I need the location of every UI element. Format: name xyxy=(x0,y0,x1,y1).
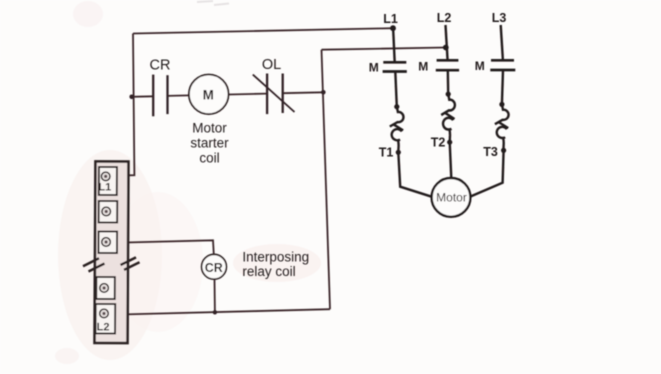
wire: second top rail to L2 phase xyxy=(322,48,446,50)
wire: phase3 heater to motor xyxy=(471,150,504,196)
svg-text:Motor: Motor xyxy=(192,121,227,136)
heater T3 xyxy=(495,104,509,150)
node right rung junction xyxy=(321,90,326,95)
node below heater T2 xyxy=(447,140,452,145)
svg-text:L2: L2 xyxy=(97,321,110,333)
terminal 5 (L2) xyxy=(96,304,116,334)
node L1 tap xyxy=(390,25,396,31)
contact OL (normally closed) xyxy=(267,74,283,115)
wire: rung segment OL contact to right rail xyxy=(283,91,324,94)
svg-text:M: M xyxy=(203,87,214,102)
terminal 2 xyxy=(99,201,118,223)
faint smudge top centre xyxy=(197,1,229,5)
terminal 3 xyxy=(98,231,117,253)
svg-text:T1: T1 xyxy=(379,146,394,160)
svg-text:L3: L3 xyxy=(492,11,507,25)
wire: top rail to L1 phase xyxy=(133,28,393,33)
node above heater T1 xyxy=(394,104,399,109)
contact M phase2 xyxy=(436,60,459,70)
svg-text:Motor: Motor xyxy=(436,191,467,205)
svg-text:relay coil: relay coil xyxy=(242,264,295,279)
wire: phase2 heater to motor xyxy=(450,142,452,178)
node below heater T3 xyxy=(501,148,506,153)
svg-text:CR: CR xyxy=(205,261,223,275)
wire: CR coil to bottom rail xyxy=(214,279,216,312)
coil M (motor starter) xyxy=(189,75,229,115)
contact M phase1 xyxy=(383,62,407,71)
wire: phase1 contact to heater xyxy=(395,72,397,107)
svg-text:starter: starter xyxy=(190,136,229,151)
terminal block body xyxy=(95,161,129,343)
wire: bottom rail xyxy=(109,309,330,315)
node above heater T2 xyxy=(446,92,451,97)
node CR coil bottom junction xyxy=(213,310,217,314)
heater T1 xyxy=(390,107,404,153)
contact M phase3 xyxy=(490,60,515,70)
node L2 tap xyxy=(443,45,449,51)
wire: phase1 heater to motor xyxy=(398,152,432,197)
wire: L3 drop to contact xyxy=(501,25,503,60)
node left rung junction xyxy=(129,95,134,100)
wire: right vertical rail xyxy=(322,50,331,310)
wire: phase3 contact to heater xyxy=(502,70,503,104)
svg-text:M: M xyxy=(369,61,379,75)
svg-text:CR: CR xyxy=(150,58,171,74)
contact CR (normally open) xyxy=(153,75,167,117)
svg-text:T2: T2 xyxy=(431,136,446,150)
wire: L1 drop to contact xyxy=(393,26,395,63)
contact OL slash xyxy=(253,75,295,112)
wire: terminal 3 to CR coil xyxy=(110,240,214,254)
terminal 4 xyxy=(96,277,115,299)
wire: rung segment M coil to OL contact xyxy=(229,93,268,96)
heater T2 xyxy=(441,94,455,142)
motor M1 xyxy=(432,178,471,217)
node above heater T3 xyxy=(499,102,504,107)
svg-text:L2: L2 xyxy=(437,11,452,25)
terminal 1 (L1) xyxy=(99,167,117,195)
svg-text:Interposing: Interposing xyxy=(242,250,309,265)
wire: rung segment left rail to CR contact xyxy=(131,95,153,98)
coil CR (interposing relay) xyxy=(202,254,227,279)
svg-text:L1: L1 xyxy=(383,12,398,26)
wire: rung segment CR contact to M coil xyxy=(168,94,190,97)
wire: L2 drop to contact xyxy=(446,25,448,60)
break marks on terminal strip xyxy=(83,257,140,271)
svg-text:M: M xyxy=(418,60,428,74)
wire: left vertical rail + jog to terminal L1 xyxy=(110,34,134,176)
wire: phase2 contact to heater xyxy=(447,70,450,94)
svg-text:M: M xyxy=(475,59,485,73)
node below heater T1 xyxy=(396,150,401,155)
svg-text:L1: L1 xyxy=(98,181,111,193)
svg-text:T3: T3 xyxy=(483,145,498,159)
svg-text:coil: coil xyxy=(199,151,219,166)
svg-text:OL: OL xyxy=(262,57,281,73)
